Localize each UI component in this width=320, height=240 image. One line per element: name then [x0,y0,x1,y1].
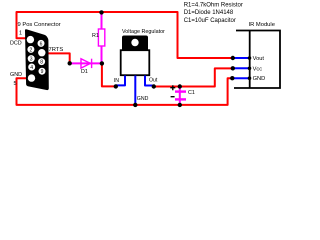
wire: regulator Out line to Vcc riser [154,68,233,86]
pin 8 [38,58,45,65]
node: regulator OUT junction [152,84,156,88]
svg-text:Out: Out [149,78,158,84]
node: junction diode cathode / R1 bottom [100,61,104,65]
wire: GND lead (blue) [232,77,249,79]
svg-text:9: 9 [41,69,44,75]
wire: Vcc lead (blue) [233,67,250,69]
node: regulator GND to bottom rail [133,103,137,107]
svg-text:9 Pos Connector: 9 Pos Connector [18,22,61,28]
pin 9 [39,68,46,75]
resistor R1 [98,29,104,46]
svg-text:C1: C1 [188,90,195,96]
node: junction R1 top [99,10,103,14]
svg-text:4: 4 [30,65,33,71]
wire: R1 vertical lead (magenta) [101,12,103,63]
wire: regulator GND pin (blue) [134,76,136,105]
svg-text:5: 5 [14,81,17,87]
IR module box [234,31,280,89]
wire: pin7 RTS to diode anode [42,53,70,63]
diode D1 [81,59,92,68]
wire: regulator OUT pin (blue) [145,76,154,86]
voltage regulator body [121,50,150,75]
svg-text:3: 3 [30,57,33,63]
svg-text:IR Module: IR Module [249,22,275,28]
svg-text:DCD: DCD [10,41,22,47]
capacitor C1 plates [175,90,186,92]
svg-text:GND: GND [137,96,149,102]
wire: pin5 GND down to bottom rail across to IR GND riser [17,78,233,105]
wire: regulator IN pin (blue) [116,76,125,86]
svg-text:GND: GND [253,76,266,82]
voltage regulator U1 tab [122,36,148,51]
pin 3 [28,55,35,62]
voltage regulator mounting hole [131,39,138,46]
node: C1 bottom junction [178,103,182,107]
pin 2 [27,46,34,53]
wire: C1 vertical lead (magenta) [179,87,181,105]
svg-text:C1=10uF Capacitor: C1=10uF Capacitor [184,18,236,24]
svg-text:Voltage Regulator: Voltage Regulator [122,29,165,35]
pin 7 (RTS) [38,49,45,56]
svg-text:7RTS: 7RTS [49,47,64,53]
svg-text:GND: GND [10,72,22,78]
pin 1 (DCD) [27,36,34,43]
wire: Vout lead (blue) [233,57,250,59]
node: regulator IN junction [114,84,118,88]
wire: pin1 DCD to top rail to Vout row [17,12,233,58]
svg-text:D1: D1 [81,69,88,75]
pin 6 [38,40,45,47]
svg-text:8: 8 [40,60,43,66]
svg-text:6: 6 [40,41,43,47]
svg-text:2: 2 [30,47,33,53]
svg-text:R1=4.7kOhm Resistor: R1=4.7kOhm Resistor [184,2,243,8]
node: GND junction [230,76,234,80]
svg-text:D1=Diode 1N4148: D1=Diode 1N4148 [184,10,234,16]
svg-text:Vcc: Vcc [253,66,263,72]
IR module left edge [249,31,251,89]
pin 5 (GND) [28,74,35,81]
pin 4 [28,64,35,71]
wire: diode cathode node down and right to regulator IN [102,63,115,86]
wire: diode row lead (magenta) [70,62,102,64]
node: C1 top junction [178,84,182,88]
node: Vout junction [231,56,235,60]
9 pos connector body [25,29,49,90]
svg-text:Vout: Vout [253,56,265,62]
svg-text:R1: R1 [92,33,99,39]
node: Vcc junction [231,66,235,70]
svg-text:1: 1 [19,31,22,37]
node: junction diode anode [68,61,72,65]
svg-text:IN: IN [114,78,119,84]
